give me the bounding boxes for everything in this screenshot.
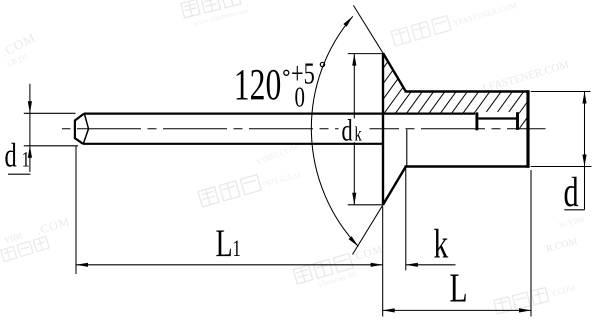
svg-text:1: 1 — [22, 148, 30, 172]
svg-text:YI88: YI88 — [3, 230, 24, 245]
svg-text:.COM: .COM — [35, 214, 72, 237]
svg-text:W.YI88: W.YI88 — [558, 215, 585, 230]
tip — [75, 114, 84, 144]
svg-text:k: k — [355, 122, 362, 145]
hatching — [331, 40, 595, 140]
L1 dimension — [76, 146, 383, 274]
angle dimension: extended slope lines — [311, 5, 383, 254]
watermark center CJK — [192, 141, 308, 207]
svg-text:d: d — [5, 138, 17, 175]
svg-text:.COM: .COM — [351, 243, 385, 263]
svg-text:YFASTENER.COM: YFASTENER.COM — [452, 1, 518, 28]
svg-text:d: d — [564, 168, 579, 215]
watermark right of head CJK — [391, 0, 518, 46]
rivet body outline — [383, 53, 529, 205]
svg-text:d: d — [342, 113, 354, 147]
svg-text:www.yfastener.com: www.yfastener.com — [193, 6, 249, 27]
watermark bottom-right CJK — [494, 281, 577, 314]
k dimension — [406, 169, 456, 271]
watermark top-center CJK — [181, 0, 313, 30]
watermark top-left corner — [0, 30, 43, 69]
watermark bottom center CJK — [293, 243, 389, 294]
mandrel head notch — [475, 112, 478, 130]
d dimension — [531, 92, 592, 210]
svg-text:R.COM: R.COM — [545, 236, 579, 255]
svg-text:0: 0 — [295, 81, 305, 113]
svg-text:I.FASTENER.COM: I.FASTENER.COM — [482, 59, 571, 95]
svg-text:7971.625.11: 7971.625.11 — [262, 170, 303, 190]
watermark bottom-left — [0, 214, 75, 262]
L dimension — [383, 170, 531, 317]
svg-text:L: L — [450, 265, 468, 311]
d1 dimension — [8, 84, 78, 174]
svg-text:Y.COM: Y.COM — [550, 283, 576, 298]
dk label with mask — [339, 118, 370, 142]
svg-text:L: L — [216, 223, 233, 265]
shank edges — [405, 90, 530, 93]
cone/shank junction (exterior, bottom half) — [406, 130, 408, 166]
centerline — [62, 128, 546, 130]
dk dimension line — [348, 54, 382, 205]
svg-text:120: 120 — [234, 61, 282, 109]
angle arc — [311, 16, 358, 246]
watermark right edge vertical — [545, 215, 585, 255]
mandrel (spindle) — [75, 112, 518, 144]
svg-text:k: k — [434, 221, 449, 267]
svg-text:1: 1 — [233, 236, 241, 261]
head slopes — [383, 53, 406, 91]
120 0 +5' — [234, 56, 325, 113]
head face — [382, 53, 384, 205]
